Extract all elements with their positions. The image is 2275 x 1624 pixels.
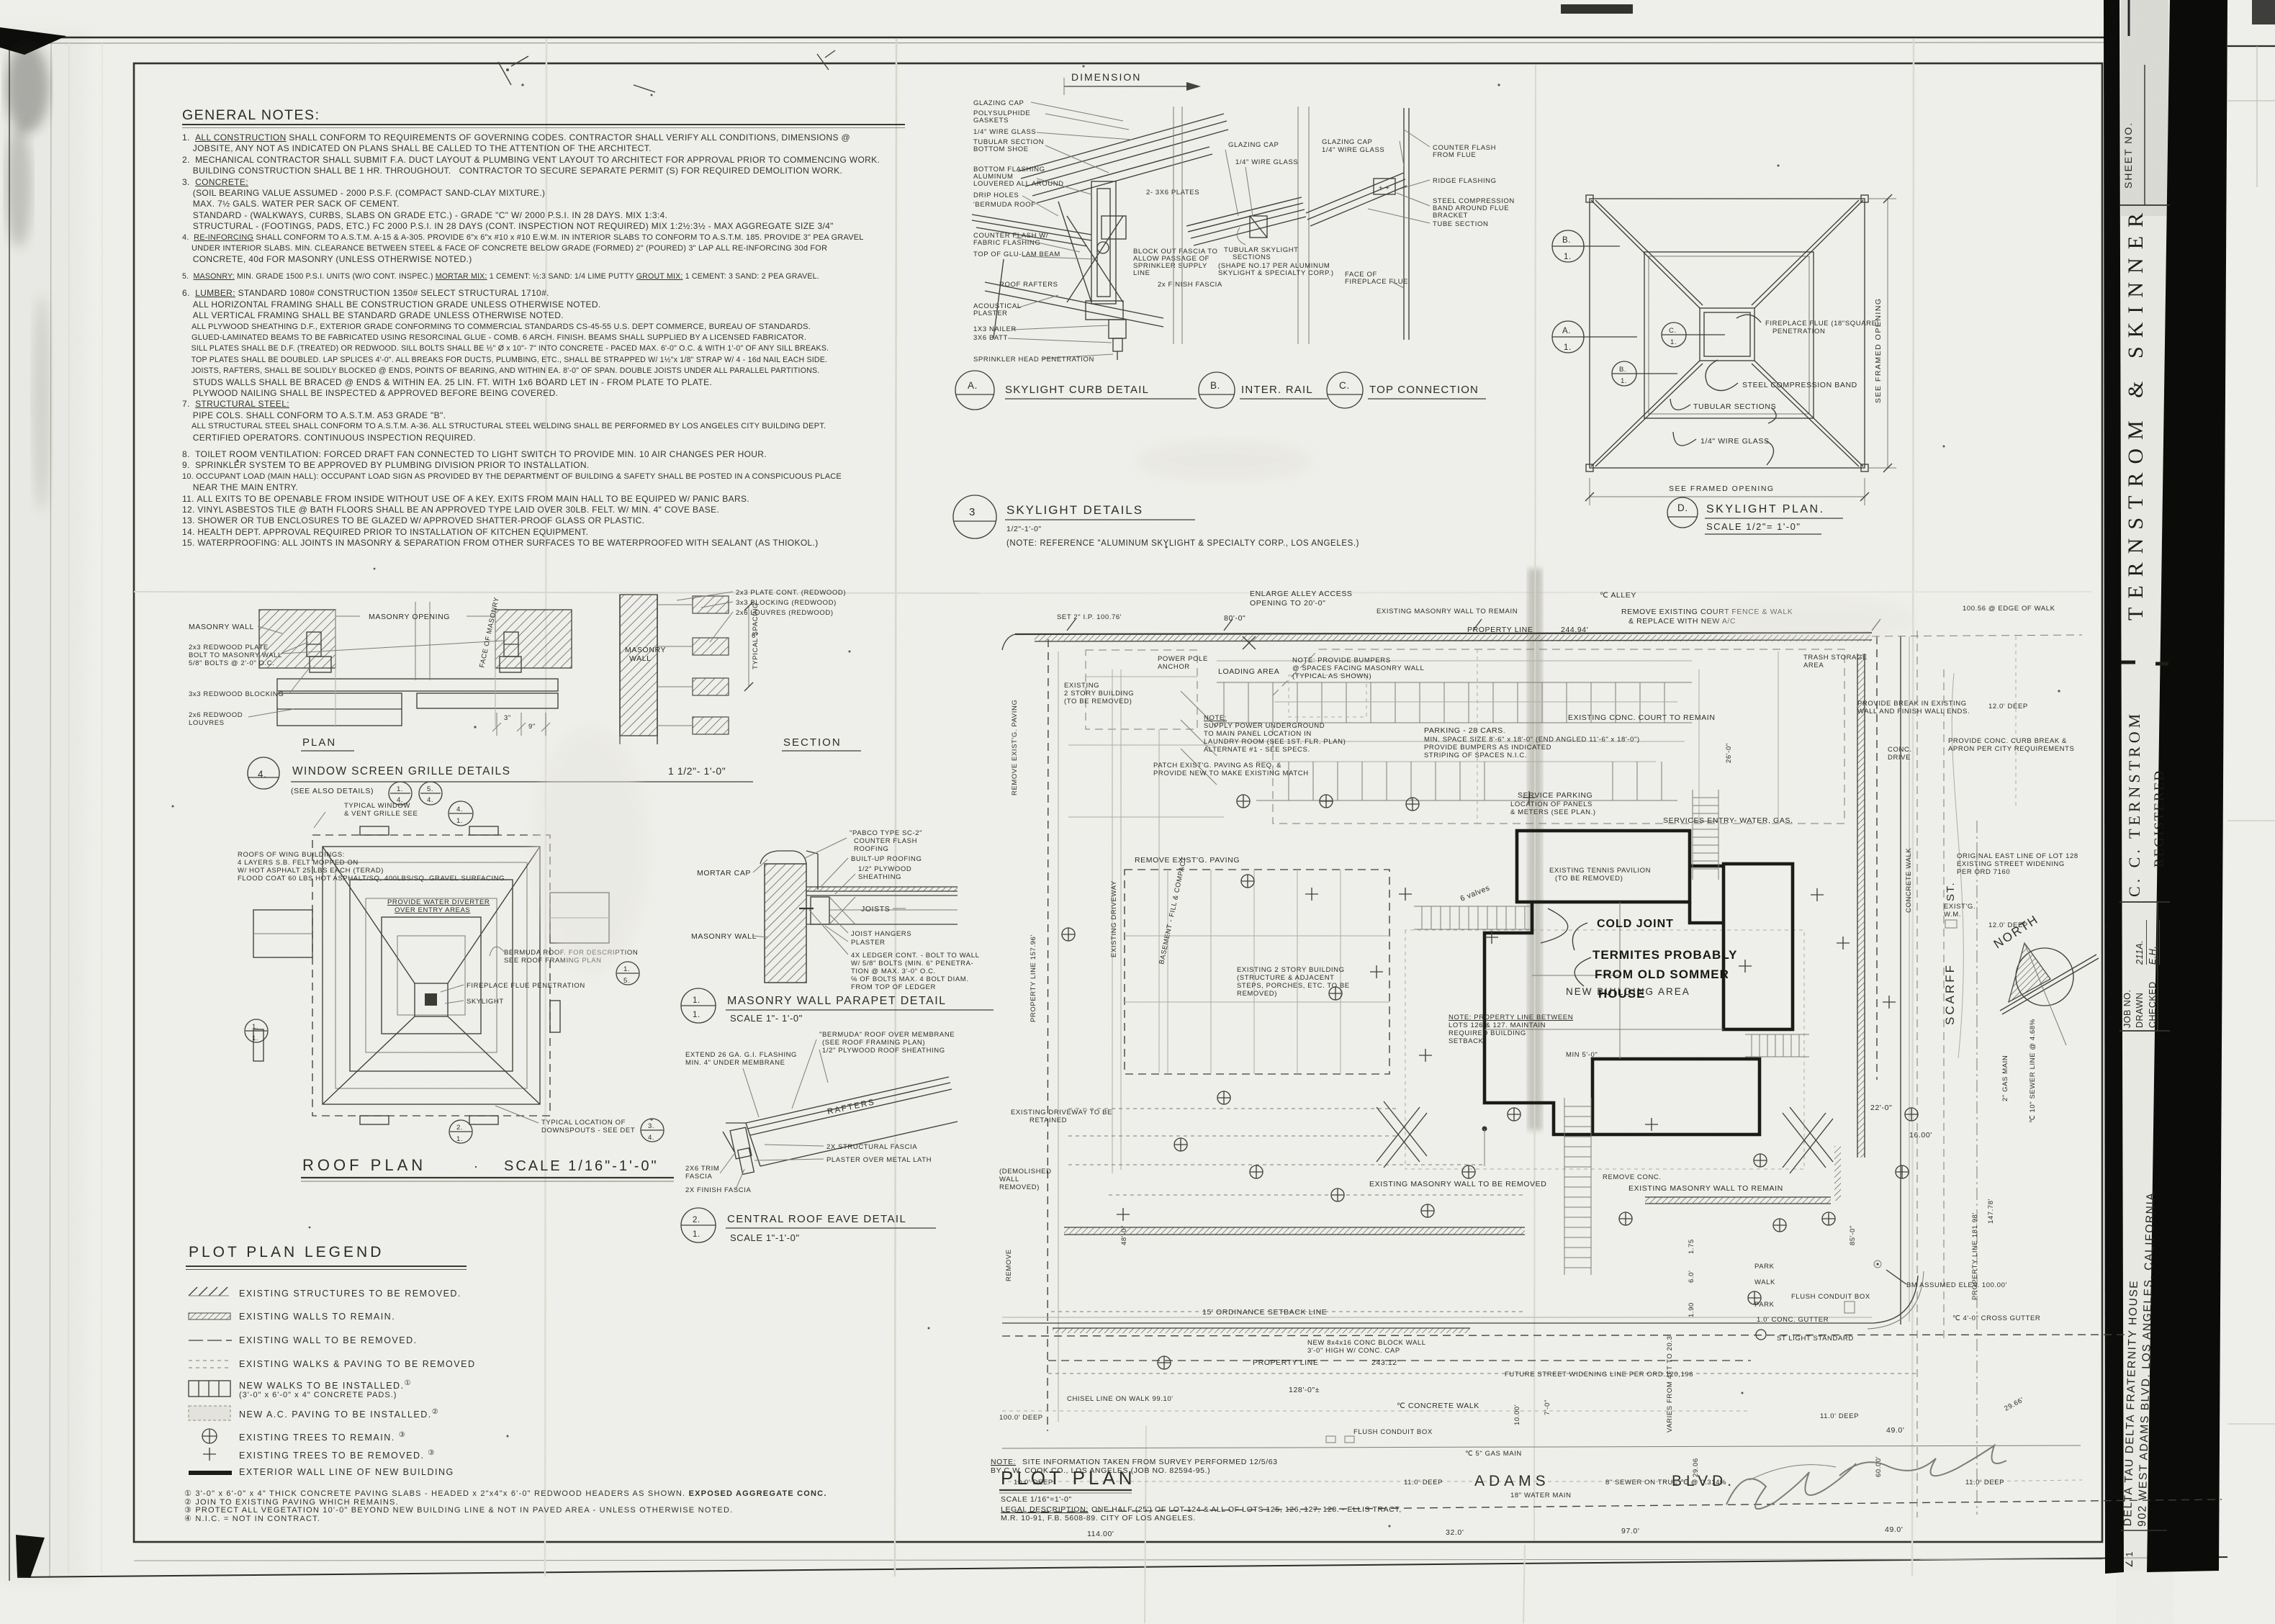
svg-text:FIREPLACE FLUE (18"SQUARE): FIREPLACE FLUE (18"SQUARE): [1765, 320, 1879, 328]
svg-text:BOLT TO MASONRY WALL: BOLT TO MASONRY WALL: [189, 651, 282, 659]
svg-text:4.: 4.: [648, 1134, 654, 1142]
svg-text:TYPICAL WINDOW: TYPICAL WINDOW: [344, 802, 410, 810]
svg-text:BRACKET: BRACKET: [1433, 212, 1468, 220]
top-right margin black dash: [1561, 4, 1633, 14]
svg-text:TOP CONNECTION: TOP CONNECTION: [1369, 384, 1479, 396]
svg-text:NOTE:: NOTE:: [991, 1458, 1016, 1466]
svg-text:85'-0": 85'-0": [1849, 1225, 1857, 1245]
svg-text:MASONRY WALL PARAPET DETAIL: MASONRY WALL PARAPET DETAIL: [727, 995, 947, 1007]
svg-text:℅ OF BOLTS MAX. 4 BOLT DIAM.: ℅ OF BOLTS MAX. 4 BOLT DIAM.: [851, 975, 969, 983]
right dimension line: [1887, 199, 1888, 468]
svg-text:EXISTING CONC. COURT TO REMAIN: EXISTING CONC. COURT TO REMAIN: [1568, 713, 1716, 722]
svg-text:EXISTING TENNIS PAVILION: EXISTING TENNIS PAVILION: [1549, 867, 1651, 875]
svg-text:NOTE:: NOTE:: [1204, 714, 1227, 722]
bottom dimension line: [1590, 496, 1865, 497]
svg-text:18" WATER MAIN: 18" WATER MAIN: [1510, 1492, 1572, 1499]
svg-text:11.0' DEEP: 11.0' DEEP: [1404, 1479, 1443, 1487]
svg-text:TUBE SECTION: TUBE SECTION: [1433, 220, 1488, 228]
svg-text:ALTERNATE #1 - SEE SPECS.: ALTERNATE #1 - SEE SPECS.: [1204, 746, 1310, 754]
svg-text:JOISTS: JOISTS: [861, 905, 890, 913]
plot plan title: [991, 1458, 1736, 1522]
svg-text:49.0': 49.0': [1886, 1426, 1904, 1435]
svg-text:STEPS, PORCHES, ETC. TO BE: STEPS, PORCHES, ETC. TO BE: [1237, 982, 1350, 990]
svg-text:LOUVERED ALL AROUND: LOUVERED ALL AROUND: [973, 180, 1064, 188]
svg-text:PROPERTY LINE: PROPERTY LINE: [1467, 626, 1533, 634]
svg-text:ADAMS: ADAMS: [1474, 1473, 1550, 1489]
new building area dashed boundary: [1405, 930, 1804, 1169]
stair ladder bottom-center (vertical long): [1564, 1098, 1591, 1275]
svg-text:M.R. 10-91, F.B. 5608-89. CITY: M.R. 10-91, F.B. 5608-89. CITY OF LOS AN…: [1001, 1514, 1196, 1522]
svg-text:3.: 3.: [648, 1122, 654, 1130]
svg-text:MIN 5'-0": MIN 5'-0": [1566, 1051, 1598, 1059]
svg-text:97.0': 97.0': [1621, 1527, 1639, 1535]
svg-text:FROM OLD SOMMER: FROM OLD SOMMER: [1595, 967, 1729, 981]
svg-text:LEGAL DESCRIPTION:: LEGAL DESCRIPTION:: [1001, 1505, 1089, 1514]
svg-text:EXISTING MASONRY WALL TO REMAI: EXISTING MASONRY WALL TO REMAIN: [1377, 608, 1518, 615]
svg-text:DIMENSION: DIMENSION: [1071, 71, 1141, 83]
X crossing walk left: [1377, 1101, 1427, 1168]
svg-text:SEE FRAMED OPENING: SEE FRAMED OPENING: [1874, 297, 1883, 403]
termites note (dark handwriting): [1592, 918, 1738, 1001]
svg-text:B.: B.: [1619, 366, 1626, 374]
sprinkler head: [1109, 320, 1126, 360]
svg-text:SET 2" I.P. 100.76': SET 2" I.P. 100.76': [1057, 613, 1122, 621]
svg-text:EXISTING STREET WIDENING: EXISTING STREET WIDENING: [1957, 860, 2065, 868]
stair ladder top (service entry): [1693, 790, 1718, 880]
svg-text:SHEATHING: SHEATHING: [858, 873, 901, 881]
svg-text:1.: 1.: [693, 1230, 700, 1239]
svg-text:TOP OF GLU-LAM BEAM: TOP OF GLU-LAM BEAM: [973, 251, 1060, 258]
svg-text:1/4" WIRE GLASS: 1/4" WIRE GLASS: [1322, 146, 1384, 154]
svg-text:147.78': 147.78': [1987, 1199, 1995, 1224]
parking stalls row1: [1224, 682, 1664, 723]
title block thin black strip: [2104, 0, 2124, 1574]
svg-text:3'-0" HIGH W/ CONC. CAP: 3'-0" HIGH W/ CONC. CAP: [1307, 1347, 1400, 1355]
svg-text:RETAINED: RETAINED: [1030, 1116, 1067, 1124]
svg-text:1.: 1.: [456, 817, 463, 825]
svg-text:DRIP HOLES: DRIP HOLES: [973, 191, 1019, 199]
svg-text:SCALE 1"- 1'-0": SCALE 1"- 1'-0": [730, 1013, 803, 1024]
svg-text:GLAZING CAP: GLAZING CAP: [1322, 138, 1372, 146]
svg-text:(DEMOLISHED: (DEMOLISHED: [999, 1168, 1052, 1176]
angled entry stalls left: [1181, 691, 1217, 785]
dim marks right: [492, 713, 550, 736]
left sheet edge lines: [9, 37, 10, 1581]
typical spacing dim: [748, 606, 749, 687]
svg-text:ORIGINAL EAST LINE OF LOT 128: ORIGINAL EAST LINE OF LOT 128: [1957, 852, 2078, 860]
X crossing walk right: [1783, 1107, 1833, 1173]
A leader lines: [1008, 102, 1132, 358]
svg-text:(SEE ALSO DETAILS): (SEE ALSO DETAILS): [291, 787, 374, 795]
svg-text:LINE: LINE: [1133, 269, 1150, 277]
existing story building left (dashed outline): [1125, 870, 1389, 1074]
svg-text:10.00': 10.00': [1513, 1404, 1521, 1425]
masonry opening verticals: [335, 610, 336, 727]
rotated labels: [1005, 700, 2037, 1477]
svg-text:LOADING AREA: LOADING AREA: [1218, 667, 1279, 676]
svg-text:SCARFF: SCARFF: [1943, 963, 1957, 1025]
svg-text:PARKING - 28 CARS.: PARKING - 28 CARS.: [1424, 726, 1505, 735]
svg-text:OPENING TO 20'-0": OPENING TO 20'-0": [1250, 599, 1325, 608]
reference circles: [1552, 230, 1725, 386]
svg-text:MASONRY: MASONRY: [625, 646, 666, 654]
svg-text:WALL: WALL: [629, 654, 652, 663]
svg-text:1/4" WIRE GLASS: 1/4" WIRE GLASS: [1235, 158, 1298, 166]
svg-text:SKYLIGHT & SPECIALTY CORP.): SKYLIGHT & SPECIALTY CORP.): [1218, 269, 1334, 277]
svg-text:12.0' DEEP: 12.0' DEEP: [1988, 921, 2028, 929]
svg-text:MASONRY WALL: MASONRY WALL: [691, 932, 757, 941]
joist + hanger: [811, 897, 829, 924]
svg-text:(TO BE REMOVED): (TO BE REMOVED): [1555, 875, 1623, 883]
svg-text:9": 9": [528, 723, 536, 731]
svg-text:1.: 1.: [1621, 377, 1627, 385]
svg-text:11.0' DEEP: 11.0' DEEP: [1820, 1412, 1859, 1420]
existing 2-story bldg top-left (dashed): [1086, 650, 1197, 729]
svg-text:ROOFS OF WING BUILDINGS:: ROOFS OF WING BUILDINGS:: [238, 851, 345, 859]
svg-text:& METERS (SEE PLAN.): & METERS (SEE PLAN.): [1510, 808, 1596, 816]
svg-text:MORTAR CAP: MORTAR CAP: [697, 869, 751, 878]
svg-text:SCALE 1/16"=1'-0": SCALE 1/16"=1'-0": [1001, 1495, 1072, 1504]
svg-text:SKYLIGHT CURB DETAIL: SKYLIGHT CURB DETAIL: [1005, 384, 1149, 396]
svg-text:1.: 1.: [456, 1135, 463, 1143]
skylight details main title: [953, 495, 1359, 548]
svg-text:A.: A.: [1562, 327, 1571, 335]
diagonals (double lines): [1591, 200, 1863, 466]
svg-text:(TO BE REMOVED): (TO BE REMOVED): [1064, 698, 1132, 705]
svg-text:REMOVE CONC.: REMOVE CONC.: [1603, 1173, 1662, 1181]
plan: masonry block left: [259, 610, 335, 668]
svg-text:1.: 1.: [397, 785, 403, 793]
svg-text:26'-0": 26'-0": [1725, 743, 1733, 763]
svg-text:WINDOW SCREEN GRILLE DETAILS: WINDOW SCREEN GRILLE DETAILS: [292, 765, 510, 777]
svg-text:2x6 REDWOOD: 2x6 REDWOOD: [189, 711, 243, 719]
svg-text:4.: 4.: [427, 796, 433, 804]
svg-text:5/8" BOLTS @ 2'-0" O.C.: 5/8" BOLTS @ 2'-0" O.C.: [189, 659, 274, 667]
roof rafters: [985, 259, 1163, 338]
main line dot & line: [1482, 1127, 1487, 1132]
scanner dirt specks: [172, 66, 2060, 1528]
svg-text:1.0' CONC. GUTTER: 1.0' CONC. GUTTER: [1757, 1316, 1829, 1324]
svg-text:FUTURE STREET WIDENING LINE PE: FUTURE STREET WIDENING LINE PER ORD.120,…: [1505, 1371, 1693, 1379]
svg-text:SKYLIGHT PLAN.: SKYLIGHT PLAN.: [1706, 503, 1825, 515]
fold creases: [545, 39, 546, 1576]
svg-text:2X6 TRIM: 2X6 TRIM: [685, 1165, 719, 1173]
svg-text:WALL AND FINISH WALL ENDS.: WALL AND FINISH WALL ENDS.: [1857, 708, 1970, 716]
svg-text:TO MAIN PANEL LOCATION IN: TO MAIN PANEL LOCATION IN: [1204, 730, 1312, 738]
svg-text:49.0': 49.0': [1885, 1525, 1903, 1534]
svg-text:80'-0": 80'-0": [1224, 614, 1245, 623]
svg-text:2X STRUCTURAL FASCIA: 2X STRUCTURAL FASCIA: [826, 1143, 917, 1151]
svg-text:16.00': 16.00': [1909, 1131, 1932, 1140]
svg-text:MIN. 4" UNDER MEMBRANE: MIN. 4" UNDER MEMBRANE: [685, 1059, 785, 1067]
BOLD: existing tennis pavilion rect: [1517, 831, 1690, 902]
svg-text:1/4" WIRE GLASS: 1/4" WIRE GLASS: [973, 128, 1036, 136]
svg-text:2x3 REDWOOD PLATE: 2x3 REDWOOD PLATE: [189, 644, 269, 651]
svg-text:PLASTER OVER METAL LATH: PLASTER OVER METAL LATH: [826, 1156, 932, 1164]
detail title A: [955, 371, 1197, 410]
scarff st curb lines: [1900, 636, 1901, 1325]
svg-text:1.: 1.: [252, 1034, 258, 1042]
svg-text:ST LIGHT STANDARD: ST LIGHT STANDARD: [1777, 1335, 1854, 1343]
svg-text:W/ 5/8" BOLTS (MIN. 6" PENETRA: W/ 5/8" BOLTS (MIN. 6" PENETRA-: [851, 960, 973, 967]
svg-text:SECTION: SECTION: [783, 736, 842, 749]
svg-text:PROPERTY LINE 181.98': PROPERTY LINE 181.98': [1971, 1212, 1979, 1300]
svg-text:BY C.W. COOK CO., LOS ANGELES: BY C.W. COOK CO., LOS ANGELES (JOB NO. 8…: [991, 1466, 1210, 1475]
svg-text:SKYLIGHT DETAILS: SKYLIGHT DETAILS: [1006, 503, 1143, 517]
svg-text:4 LAYERS S.B. FELT MOPPED ON: 4 LAYERS S.B. FELT MOPPED ON: [238, 859, 359, 867]
title: [681, 988, 716, 1023]
svg-text:FASCIA: FASCIA: [685, 1173, 712, 1181]
svg-text:2.: 2.: [456, 1124, 463, 1132]
roof deck right: [806, 887, 958, 924]
detail C sloped glazing: [1306, 173, 1407, 226]
fascia stack at left: [723, 1123, 754, 1174]
svg-text:243.12': 243.12': [1371, 1358, 1399, 1367]
svg-text:HOUSE: HOUSE: [1598, 987, 1645, 1001]
svg-text:LAUNDRY ROOM (SEE 1ST. FLR. PL: LAUNDRY ROOM (SEE 1ST. FLR. PLAN): [1204, 738, 1346, 746]
svg-text:BLVD.: BLVD.: [1672, 1473, 1736, 1489]
concrete wall hatched (right edge): [1857, 654, 1865, 1158]
center skylight: [415, 983, 448, 1016]
svg-text:APRON PER CITY REQUIREMENTS: APRON PER CITY REQUIREMENTS: [1948, 745, 2074, 753]
svg-text:SCALE 1"-1'-0": SCALE 1"-1'-0": [730, 1232, 800, 1243]
scan shading left margin: [0, 29, 86, 1584]
svg-text:1.: 1.: [252, 1023, 258, 1031]
svg-text:ANCHOR: ANCHOR: [1158, 663, 1190, 671]
svg-text:EXTEND 26 GA. G.I. FLASHING: EXTEND 26 GA. G.I. FLASHING: [685, 1051, 797, 1059]
svg-text:EXISTING: EXISTING: [1064, 682, 1099, 690]
title block column lines: [2128, 0, 2130, 36]
svg-text:REMOVE: REMOVE: [1005, 1249, 1013, 1281]
svg-text:SEE FRAMED OPENING: SEE FRAMED OPENING: [1669, 484, 1775, 493]
svg-text:FROM TOP OF LEDGER: FROM TOP OF LEDGER: [851, 983, 936, 991]
right property line: [1876, 636, 1878, 1080]
svg-text:ROOF PLAN: ROOF PLAN: [302, 1156, 426, 1174]
inner drawing border: [134, 63, 2102, 1542]
trees existing to remain (circle-plus symbols): [1062, 795, 1918, 1369]
stair ladder left (horizontal): [1414, 906, 1531, 929]
svg-text:B.: B.: [1562, 236, 1571, 245]
svg-text:PARK: PARK: [1754, 1301, 1775, 1309]
svg-text:℃ ALLEY: ℃ ALLEY: [1600, 591, 1636, 600]
svg-text:PLAN: PLAN: [302, 736, 336, 749]
title: [248, 757, 279, 789]
svg-text:LOTS 126 & 127. MAINTAIN: LOTS 126 & 127. MAINTAIN: [1449, 1021, 1546, 1029]
dim ticks top: [1067, 619, 1880, 631]
svg-text:SPRINKLER HEAD PENETRATION: SPRINKLER HEAD PENETRATION: [973, 356, 1094, 364]
svg-text:7'-0": 7'-0": [1544, 1399, 1551, 1415]
svg-text:(TYPICAL AS SHOWN): (TYPICAL AS SHOWN): [1292, 672, 1371, 680]
svg-text:11.0' DEEP: 11.0' DEEP: [1965, 1479, 2004, 1487]
svg-text:2- 3X6 PLATES: 2- 3X6 PLATES: [1146, 189, 1199, 197]
svg-text:PATCH EXIST'G. PAVING AS REQ.: PATCH EXIST'G. PAVING AS REQ. &: [1153, 762, 1281, 770]
svg-text:FIREPLACE FLUE: FIREPLACE FLUE: [1345, 278, 1408, 286]
svg-text:+ +: + +: [1379, 184, 1390, 192]
parking stalls row2: [1289, 762, 1662, 800]
svg-text:MASONRY OPENING: MASONRY OPENING: [369, 613, 450, 621]
svg-text:EXISTING DRIVEWAY: EXISTING DRIVEWAY: [1110, 880, 1118, 957]
svg-text:TRASH STORAGE: TRASH STORAGE: [1803, 654, 1868, 662]
svg-text:@ SPACES FACING MASONRY WALL: @ SPACES FACING MASONRY WALL: [1292, 664, 1424, 672]
parking lot guide lines: [1217, 682, 1692, 683]
svg-text:C.: C.: [1669, 327, 1677, 335]
svg-text:MIN. SPACE SIZE 8'-6" x 18'-0": MIN. SPACE SIZE 8'-6" x 18'-0" (END ANGL…: [1424, 736, 1640, 744]
svg-text:1X3 NAILER: 1X3 NAILER: [973, 325, 1017, 333]
svg-text:48'-0": 48'-0": [1120, 1225, 1128, 1245]
svg-text:PENETRATION: PENETRATION: [1772, 328, 1825, 335]
svg-text:1.: 1.: [623, 965, 630, 973]
svg-text:FROM FLUE: FROM FLUE: [1433, 151, 1476, 159]
svg-text:BOTTOM SHOE: BOTTOM SHOE: [973, 145, 1029, 153]
loading area dashes: [1289, 675, 1366, 717]
top-left corner black wedge: [0, 27, 66, 55]
outer dashed overhang: [312, 835, 550, 1116]
svg-text:PROPERTY LINE 157.96': PROPERTY LINE 157.96': [1030, 934, 1037, 1022]
svg-text:STEEL COMPRESSION BAND: STEEL COMPRESSION BAND: [1742, 381, 1857, 389]
svg-text:1.90: 1.90: [1688, 1302, 1695, 1317]
svg-text:STRIPING OF SPACES N.I.C.: STRIPING OF SPACES N.I.C.: [1424, 752, 1527, 759]
svg-text:SKYLIGHT: SKYLIGHT: [467, 998, 504, 1006]
svg-text:12.0' DEEP: 12.0' DEEP: [1988, 703, 2028, 710]
svg-text:·: ·: [474, 1159, 479, 1173]
svg-text:1/4" WIRE GLASS: 1/4" WIRE GLASS: [1700, 437, 1770, 446]
svg-text:REMOVE EXIST'G. PAVING: REMOVE EXIST'G. PAVING: [1011, 700, 1019, 795]
svg-text:C.: C.: [1339, 380, 1350, 391]
svg-text:WALL: WALL: [999, 1176, 1019, 1183]
svg-text:EXISTING MASONRY WALL TO BE RE: EXISTING MASONRY WALL TO BE REMOVED: [1369, 1180, 1546, 1188]
svg-text:60.00': 60.00': [1875, 1456, 1883, 1477]
masonry wall to remain (hatched band bottom-right): [1645, 1197, 1831, 1204]
plot plan labels: [999, 590, 2078, 1538]
cold joint curve: [1541, 908, 1568, 943]
svg-text:ST.: ST.: [1945, 881, 1957, 901]
svg-text:EXISTING MASONRY WALL TO REMAI: EXISTING MASONRY WALL TO REMAIN: [1628, 1184, 1783, 1193]
faint eraser smudges: [1137, 441, 1310, 481]
svg-text:4.: 4.: [456, 806, 463, 813]
concentric roof squares: [323, 847, 540, 1104]
svg-text:℃ 4'-0" CROSS GUTTER: ℃ 4'-0" CROSS GUTTER: [1952, 1314, 2040, 1322]
C flue vertical lines: [1404, 108, 1409, 340]
BOLD: connectors: [1690, 865, 1724, 868]
svg-text:POWER POLE: POWER POLE: [1158, 655, 1208, 663]
svg-text:D.: D.: [1677, 502, 1688, 513]
svg-text:FABRIC FLASHING: FABRIC FLASHING: [973, 239, 1040, 247]
svg-text:(STRUCTURE & ADJACENT: (STRUCTURE & ADJACENT: [1237, 974, 1335, 982]
louver bars: [277, 679, 558, 726]
new conc block wall band: [1053, 1328, 1470, 1333]
svg-text:4X LEDGER CONT. - BOLT TO WAL: 4X LEDGER CONT. - BOLT TO WALL: [851, 952, 980, 960]
svg-text:TUBULAR SECTIONS: TUBULAR SECTIONS: [1693, 402, 1776, 411]
ledger bolt: [799, 908, 814, 909]
svg-text:"BERMUDA" ROOF OVER MEMBRANE: "BERMUDA" ROOF OVER MEMBRANE: [819, 1031, 955, 1039]
svg-text:ROOFING: ROOFING: [854, 845, 889, 853]
future street widening line: [1048, 1373, 1916, 1374]
detail B sloped glazing: [1186, 197, 1306, 245]
svg-text:PROVIDE WATER DIVERTER: PROVIDE WATER DIVERTER: [387, 898, 490, 906]
svg-text:1.75: 1.75: [1688, 1239, 1695, 1254]
svg-text:B.: B.: [1210, 380, 1220, 391]
power pole anchor X: [1243, 636, 1256, 649]
svg-text:TERMITES PROBABLY: TERMITES PROBABLY: [1592, 948, 1738, 962]
svg-text:REMOVED): REMOVED): [1237, 990, 1277, 998]
title block speckled column: [2121, 0, 2168, 1571]
svg-text:TION @ MAX. 3'-0" O.C.: TION @ MAX. 3'-0" O.C.: [851, 967, 936, 975]
svg-text:4.: 4.: [258, 769, 266, 780]
remove paving area left lines: [1068, 669, 1224, 1173]
left property line (vertical dashed): [1048, 639, 1048, 1431]
vertical reference lines: [1173, 107, 1309, 344]
plot plan legend text: [189, 1244, 384, 1261]
svg-text:PARK: PARK: [1754, 1263, 1775, 1271]
svg-text:℃ CONCRETE WALK: ℃ CONCRETE WALK: [1397, 1402, 1479, 1410]
svg-text:LOUVRES: LOUVRES: [189, 719, 225, 727]
svg-text:COUNTER FLASH: COUNTER FLASH: [854, 837, 917, 845]
svg-text:A.: A.: [968, 380, 978, 391]
svg-text:RIDGE FLASHING: RIDGE FLASHING: [1433, 177, 1497, 185]
bottom-left corner black wedge: [16, 1535, 45, 1578]
center square double: [1700, 308, 1754, 361]
svg-text:"PABCO TYPE SC-2": "PABCO TYPE SC-2": [850, 829, 922, 837]
setback dashed line: [1051, 1311, 1526, 1312]
svg-text:PROVIDE NEW TO MAKE EXISTING M: PROVIDE NEW TO MAKE EXISTING MATCH: [1153, 770, 1309, 777]
svg-text:2" GAS MAIN: 2" GAS MAIN: [2001, 1055, 2009, 1101]
svg-text:EXISTING DRIVEWAY TO BE: EXISTING DRIVEWAY TO BE: [1011, 1109, 1112, 1116]
detail A sloped glazing bars: [1018, 114, 1228, 203]
alley masonry wall (hatched band, top): [1002, 633, 1872, 650]
svg-text:FLUSH CONDUIT BOX: FLUSH CONDUIT BOX: [1353, 1428, 1433, 1436]
svg-text:128'-0"±: 128'-0"±: [1289, 1386, 1320, 1394]
svg-text:COLD JOINT: COLD JOINT: [1597, 918, 1674, 930]
svg-text:GLAZING CAP: GLAZING CAP: [973, 99, 1024, 107]
svg-text:244.94': 244.94': [1561, 626, 1588, 634]
A labels: [973, 99, 1222, 364]
alley centerline continuing right: [1872, 635, 2082, 636]
title: [1667, 497, 1843, 534]
svg-text:ROOF RAFTERS: ROOF RAFTERS: [999, 281, 1058, 289]
svg-text:TYPICAL LOCATION OF: TYPICAL LOCATION OF: [541, 1119, 626, 1127]
svg-text:PROVIDE BREAK IN EXISTING: PROVIDE BREAK IN EXISTING: [1857, 700, 1967, 708]
general notes text block: [182, 107, 320, 124]
svg-text:MASONRY WALL: MASONRY WALL: [189, 623, 254, 631]
svg-text:1 1/2"- 1'-0": 1 1/2"- 1'-0": [668, 765, 726, 777]
svg-text:EXISTING 2 STORY BUILDING: EXISTING 2 STORY BUILDING: [1237, 966, 1345, 974]
svg-text:3x3 BLOCKING (REDWOOD): 3x3 BLOCKING (REDWOOD): [736, 599, 837, 607]
svg-text:PROPERTY LINE: PROPERTY LINE: [1253, 1358, 1318, 1367]
svg-text:32.0': 32.0': [1446, 1528, 1464, 1537]
existing conc court dashed outline: [1273, 649, 1844, 824]
svg-text:SETBACK: SETBACK: [1449, 1037, 1484, 1045]
svg-text:NOTE: PROVIDE BUMPERS: NOTE: PROVIDE BUMPERS: [1292, 657, 1391, 664]
plan: masonry block right: [495, 610, 572, 668]
svg-text:'BERMUDA ROOF: 'BERMUDA ROOF: [973, 201, 1036, 209]
svg-text:PLASTER: PLASTER: [973, 310, 1008, 317]
svg-text:FLUSH CONDUIT BOX: FLUSH CONDUIT BOX: [1791, 1293, 1870, 1301]
detail A curb assembly: [1058, 181, 1126, 320]
building interior light lines: [1485, 902, 1724, 1059]
section louvers: [657, 596, 729, 734]
svg-text:2 STORY BUILDING: 2 STORY BUILDING: [1064, 690, 1134, 698]
north arrow: [1991, 912, 2099, 1045]
svg-text:SECTIONS: SECTIONS: [1233, 253, 1271, 261]
svg-text:DRIVE: DRIVE: [1888, 754, 1911, 762]
inner square: [1644, 252, 1814, 418]
side wings/tabs: [253, 826, 609, 1124]
BOLD: lower wing rectangle: [1592, 1059, 1760, 1134]
svg-text:CONC.: CONC.: [1888, 746, 1912, 754]
trees to be removed (plus symbols): [1117, 791, 1896, 1221]
stair ladder right of lower wing: [1745, 1034, 1809, 1057]
court inner line: [1477, 649, 1478, 824]
